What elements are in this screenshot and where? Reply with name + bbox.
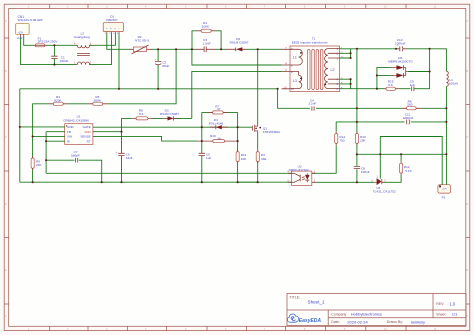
svg-text:FDLL4148: FDLL4148 [209, 121, 224, 125]
svg-text:47: 47 [217, 107, 221, 111]
capacitor C10 (output bulk) [395, 38, 407, 51]
wire ground row W [20, 88, 278, 90]
wire AC line bottom (CN1 pin1 to choke pin1) [21, 37, 77, 65]
svg-text:TITLE:: TITLE: [290, 295, 301, 299]
diode D3 [153, 109, 192, 121]
svg-text:VDD: VDD [84, 130, 91, 134]
wire TL431 ref and P1 pin2 net [380, 137, 442, 185]
wire secondary top row (pins 1-3) [340, 49, 397, 58]
junctions: FB / VIN nodes [32, 135, 48, 161]
resistor R6 [357, 99, 447, 109]
svg-text:24K: 24K [36, 163, 42, 167]
title block [287, 294, 466, 326]
junctions: primary ground row [19, 88, 279, 128]
wire primary ground bus [20, 181, 292, 183]
resistor R9 [31, 156, 42, 170]
svg-text:REV:: REV: [436, 302, 444, 306]
optocoupler U2 [287, 165, 316, 186]
svg-text:iamkisly: iamkisly [411, 319, 425, 324]
wire U1 RI row [46, 140, 65, 142]
wire choke to bridge AC [89, 33, 115, 64]
svg-text:R10: R10 [210, 134, 216, 138]
resistor R14 [312, 122, 346, 173]
wire C10 to cathode node [407, 49, 430, 89]
capacitor C9 (snubber) [410, 80, 430, 91]
wire D5 cathode tap [408, 71, 430, 73]
capacitor C6 [116, 150, 133, 160]
resistor R7 [202, 105, 238, 115]
junction: AC top at C1 [53, 44, 55, 46]
svg-text:TL431_C411752: TL431_C411752 [373, 190, 396, 194]
connector CN1 [16, 15, 43, 40]
wire Y-cap net (pin10 to C4 to secondary gnd) [278, 89, 357, 109]
wire U1 SENSE net [93, 136, 197, 141]
junction: VDD node [120, 131, 122, 133]
svg-text:ORPC-817S/C: ORPC-817S/C [289, 168, 310, 172]
capacitor C7 [71, 150, 80, 162]
wire U1 VDD row [93, 131, 122, 133]
svg-text:10K: 10K [241, 157, 247, 161]
svg-text:Sheet_1: Sheet_1 [308, 300, 326, 305]
svg-text:+: + [116, 150, 118, 154]
svg-text:RT: RT [87, 139, 91, 143]
svg-text:L3: L3 [293, 79, 297, 83]
wire Q1 drain column [257, 49, 259, 124]
wire bridge plus to rail [107, 33, 129, 49]
resistor R4 [49, 95, 89, 105]
svg-text:1uF: 1uF [410, 83, 415, 87]
svg-text:~: ~ [114, 26, 116, 30]
thermistor R2 [129, 35, 151, 54]
wire secondary minus column [356, 49, 358, 183]
junctions: secondary minus column [356, 107, 358, 183]
svg-text:U1: U1 [77, 114, 81, 118]
wire main DC rail [151, 48, 282, 50]
svg-text:5.6: 5.6 [139, 112, 144, 116]
svg-text:CR6842_C433586: CR6842_C433586 [63, 119, 89, 123]
svg-text:+: + [110, 26, 112, 30]
svg-text:2020-02-24: 2020-02-24 [347, 319, 368, 324]
wire C11 row [336, 121, 446, 123]
svg-text:+12V: +12V [18, 32, 24, 34]
svg-text:~: ~ [106, 26, 108, 30]
svg-text:5.1K: 5.1K [405, 169, 412, 173]
svg-text:Drawn By:: Drawn By: [387, 320, 403, 324]
svg-text:VIN: VIN [67, 135, 72, 139]
svg-text:GATE: GATE [83, 125, 91, 129]
svg-text:NTC 5D-9: NTC 5D-9 [135, 39, 149, 43]
junctions: primary ground bus [32, 181, 259, 183]
junctions: reference divider row [379, 153, 402, 155]
wire aux winding pin9 column [192, 71, 282, 118]
svg-text:1/1: 1/1 [452, 312, 458, 317]
svg-text:820K: 820K [54, 98, 62, 102]
junction: AC bottom at C1 [53, 64, 55, 66]
wire U1 VIN row [33, 135, 65, 137]
svg-text:1000uF: 1000uF [395, 42, 406, 46]
svg-text:P1: P1 [442, 195, 446, 199]
wire C7 row [46, 160, 102, 182]
svg-text:20K: 20K [360, 139, 366, 143]
wire D5 anodes column [377, 68, 391, 89]
svg-text:RS1M CS087: RS1M CS087 [160, 112, 179, 116]
junctions: secondary winding pins 1-3 [350, 48, 431, 59]
wire divider row 155 [357, 153, 447, 155]
svg-text:+12V: +12V [17, 37, 23, 40]
diode D4 [209, 118, 228, 129]
junction: rectifier output node [429, 70, 431, 72]
wire pin8 to rail [192, 49, 282, 65]
svg-text:Date:: Date: [331, 320, 339, 324]
svg-text:2P3 15A 250V: 2P3 15A 250V [38, 40, 59, 44]
IC U1 CR6842 [63, 114, 93, 144]
svg-text:+: + [155, 57, 157, 61]
resistor R8 [131, 109, 152, 120]
capacitor C11 [403, 113, 414, 125]
svg-text:C: C [467, 136, 469, 139]
svg-text:560: 560 [407, 103, 412, 107]
svg-text:68uF: 68uF [162, 64, 169, 68]
wire U1 FB row and FB column [46, 132, 65, 174]
fuse F1 [34, 36, 59, 46]
resistor R11 [236, 150, 247, 163]
wire FB row to optocoupler [46, 172, 292, 174]
resistor R5 [88, 95, 108, 105]
svg-text:100uH: 100uH [449, 82, 458, 86]
resistor R13 [355, 132, 366, 146]
wire Vout rail [430, 49, 447, 185]
svg-text:33E: 33E [261, 157, 267, 161]
capacitor C4 [308, 98, 316, 110]
svg-text:KBP307: KBP307 [106, 18, 118, 22]
diode D5 (dual rectifier) [388, 56, 413, 77]
wire secondary bottom row (pins 4-6) [340, 79, 411, 89]
capacitor C5 [199, 153, 212, 161]
wire startup column (DC+ to R5) [108, 49, 177, 104]
wire VIN column [33, 104, 49, 182]
junctions: DC+ rail nodes [157, 48, 259, 50]
svg-text:C: C [5, 136, 7, 139]
resistor R1 (snubber) [192, 21, 221, 49]
svg-text:100nF: 100nF [361, 170, 370, 174]
wire AC line top (CN1 pin2 to fuse to choke) [24, 37, 76, 46]
transistor Q1 MOSFET [252, 125, 281, 134]
svg-text:D: D [467, 203, 469, 206]
capacitor C2 (bulk electrolytic) [155, 49, 170, 89]
wire U1 GND row [20, 126, 65, 128]
wire VDD column [122, 118, 132, 182]
svg-text:1000uF: 1000uF [403, 116, 414, 120]
svg-text:RS1M CS087: RS1M CS087 [230, 41, 249, 45]
junctions: gate drive nodes [201, 126, 239, 142]
svg-text:WJ142V-5.08-02P: WJ142V-5.08-02P [18, 18, 43, 22]
resistor R15 [383, 80, 399, 91]
svg-text:GND: GND [67, 125, 75, 129]
wire Q1 source column [238, 133, 258, 183]
svg-text:SENSE: SENSE [80, 135, 90, 139]
capacitor C3 (snubber, series on rail) [196, 38, 215, 52]
common-mode choke L2 [74, 32, 92, 65]
svg-text:Company:: Company: [331, 312, 347, 316]
svg-text:FB: FB [67, 130, 71, 134]
svg-text:Guangdong: Guangdong [74, 35, 90, 39]
svg-text:100K: 100K [202, 25, 210, 29]
wire gate network right column [237, 112, 239, 182]
bridge rectifier D1 [103, 15, 123, 36]
wire bridge minus down [118, 33, 120, 89]
svg-text:FHF20N60A: FHF20N60A [263, 130, 281, 134]
svg-text:1.5nF: 1.5nF [203, 41, 211, 45]
svg-text:5.6: 5.6 [388, 83, 393, 87]
svg-text:+12V: +12V [442, 189, 448, 191]
wire ground left column [19, 89, 21, 182]
diode D2 (clamp) [226, 37, 249, 51]
svg-text:820K: 820K [94, 98, 102, 102]
wire opto LED cathode row [315, 181, 374, 183]
svg-text:750: 750 [339, 139, 344, 143]
capacitor C1 [51, 45, 68, 64]
svg-text:560pF: 560pF [71, 154, 80, 158]
svg-text:EasyEDA: EasyEDA [299, 318, 322, 324]
transformer T1 [282, 37, 344, 92]
svg-text:HobbyElectronics: HobbyElectronics [351, 312, 382, 317]
svg-text:D: D [5, 203, 7, 206]
svg-text:33uF: 33uF [126, 156, 133, 160]
connector P1 [438, 185, 451, 200]
svg-text:L2: L2 [331, 68, 335, 72]
wire gate network left column [201, 112, 203, 182]
shunt regulator U3 TL431 [371, 175, 396, 193]
svg-text:2.2nF: 2.2nF [308, 102, 316, 106]
capacitor C8 [354, 166, 370, 174]
resistor R12 [384, 154, 412, 182]
svg-text:MBRN1H100CTG: MBRN1H100CTG [388, 60, 413, 64]
svg-text:1.0: 1.0 [449, 301, 455, 306]
resistor R10 [197, 134, 237, 143]
junctions: secondary winding pins 4-6 [350, 74, 378, 89]
svg-text:L1: L1 [293, 55, 297, 59]
wire U1 GATE row [93, 126, 253, 128]
svg-text:-: - [118, 26, 119, 30]
junctions: Vout rail [445, 107, 447, 155]
svg-text:RI: RI [67, 139, 70, 143]
svg-text:Sheet:: Sheet: [436, 312, 446, 316]
svg-text:100nF: 100nF [60, 59, 69, 63]
svg-text:EE25 Impulse transformer: EE25 Impulse transformer [292, 41, 328, 45]
resistor R3 (sense) [256, 150, 266, 163]
inductor L1 [446, 71, 458, 86]
svg-text:1uF: 1uF [206, 156, 211, 160]
